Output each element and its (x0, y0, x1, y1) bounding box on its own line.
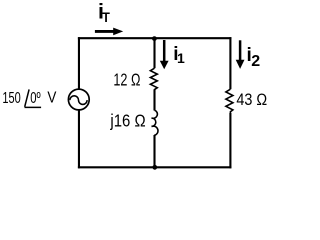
svg-text:12 Ω: 12 Ω (113, 70, 140, 90)
svg-text:0º: 0º (30, 90, 41, 107)
angle underline (25, 106, 42, 108)
svg-text:150: 150 (2, 90, 20, 107)
svg-text:T: T (102, 9, 110, 25)
current arrow i2 (239, 40, 242, 60)
wire left vertical lower (78, 110, 80, 168)
wire left vertical upper (78, 37, 80, 88)
wire right vertical bottom (229, 113, 231, 168)
svg-text:1: 1 (177, 50, 185, 66)
node junction bottom (152, 165, 157, 170)
resistor R1 12 ohm zigzag (150, 68, 157, 90)
svg-text:43 Ω: 43 Ω (236, 91, 267, 109)
wire top horizontal (78, 37, 232, 39)
wire middle vertical bottom (153, 135, 155, 168)
wire middle vertical top (153, 37, 155, 68)
node junction top (152, 36, 157, 41)
current arrow i1 (163, 40, 166, 62)
wire middle between R1 and L1 (153, 90, 155, 111)
wire bottom horizontal (78, 166, 232, 168)
inductor L1 j16 ohm (152, 110, 158, 135)
angle slash (25, 89, 29, 106)
svg-text:2: 2 (251, 53, 260, 70)
wire right vertical top (229, 37, 231, 89)
svg-text:V: V (47, 89, 56, 106)
current arrow iT (95, 30, 114, 33)
AC voltage source VS (68, 89, 89, 110)
resistor R2 43 ohm zigzag (226, 89, 233, 113)
svg-text:j16 Ω: j16 Ω (110, 111, 146, 131)
